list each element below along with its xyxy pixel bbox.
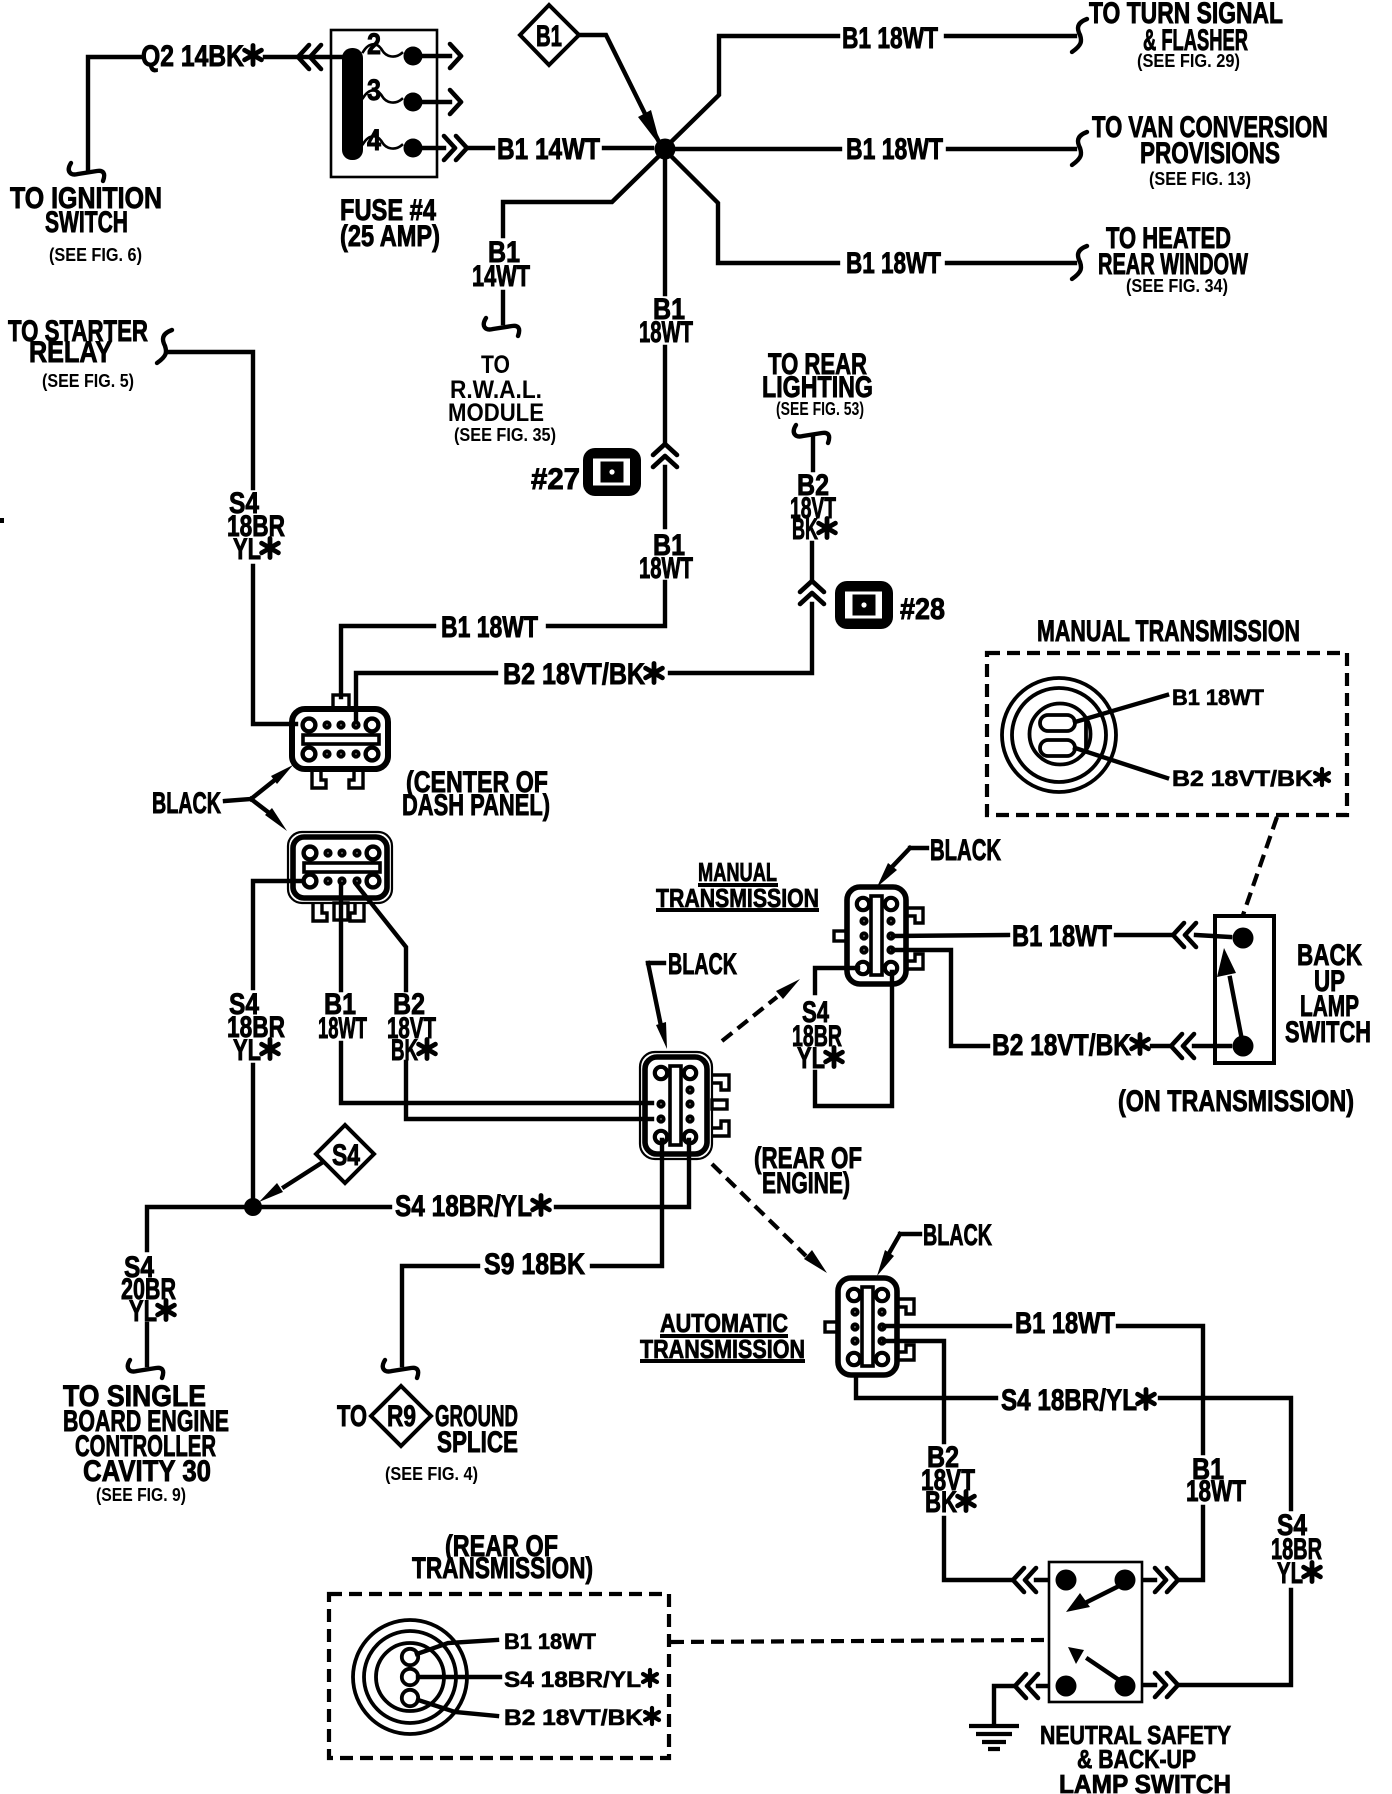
svg-text:BLACK: BLACK [930,834,1001,867]
svg-text:BLACK: BLACK [152,787,221,820]
svg-text:DASH PANEL): DASH PANEL) [402,789,550,822]
svg-text:B1 18WT: B1 18WT [846,133,943,166]
svg-text:YL: YL [129,1295,157,1328]
svg-text:(25 AMP): (25 AMP) [340,220,440,253]
svg-text:3: 3 [367,74,381,107]
neutral safety switch box [1049,1562,1142,1702]
svg-text:(SEE FIG. 9): (SEE FIG. 9) [96,1485,186,1505]
connector half symbol rear lighting [794,425,829,443]
svg-text:18WT: 18WT [639,316,693,349]
back-up lamp switch box [1215,916,1274,1063]
svg-text:(SEE FIG. 6): (SEE FIG. 6) [49,245,142,265]
diamond S4 [316,1125,374,1183]
callout B1 18WT rear transmission [417,1640,497,1654]
dashed arrow to automatic transmission connector [712,1164,806,1256]
svg-text:B1 18WT: B1 18WT [441,611,538,644]
dashed arrow to manual transmission connector [722,997,777,1041]
round connector rear of transmission [353,1620,467,1734]
arrow bottom inside neutral safety switch [1088,1659,1119,1680]
wire B2 18VT BK* automatic connector to neutral safety switch [884,1341,1047,1580]
wire S4 loop manual transmission [815,968,892,1106]
fuse pin 3 [423,100,450,104]
svg-text:B1 18WT: B1 18WT [1172,685,1265,710]
wire B2 18VT/BK* vertical [356,436,813,722]
svg-text:SWITCH: SWITCH [45,206,128,239]
brace starter relay [157,330,172,363]
wire node to van conversion [675,147,1075,151]
grommet #28 [835,581,893,629]
svg-text:BLACK: BLACK [923,1219,992,1252]
wire S4 18BR/YL* junction to rear engine connector [262,1140,689,1207]
svg-text:R9: R9 [387,1400,416,1433]
connector C3 rear of engine [640,1052,729,1159]
svg-text:B1 18WT: B1 18WT [842,22,938,55]
svg-text:(ON TRANSMISSION): (ON TRANSMISSION) [1118,1085,1354,1118]
wire S9 18BK rear engine connector to ground splice [402,1140,662,1365]
connector C4 manual transmission [834,887,923,984]
fuse bus bar [342,48,363,160]
svg-text:#28: #28 [900,593,945,626]
node B1 splice [655,139,676,160]
svg-text:#27: #27 [531,463,580,496]
dashed box rear of transmission [329,1594,669,1758]
wire B2 18VT/BK* manual connector to back-up lamp switch [893,950,1230,1046]
callout B2 18VT/BK* manual box [1075,748,1167,778]
svg-text:(SEE FIG. 53): (SEE FIG. 53) [776,399,864,419]
svg-text:B1 18WT: B1 18WT [846,247,941,280]
junction node S4 [244,1198,262,1216]
wire node to turn signal [671,36,1075,142]
svg-text:(SEE FIG. 4): (SEE FIG. 4) [385,1464,478,1484]
svg-text:Q2 14BK: Q2 14BK [141,40,244,73]
wire ground from neutral safety switch [994,1686,1047,1724]
svg-text:SWITCH: SWITCH [1285,1016,1371,1049]
svg-text:(SEE FIG. 35): (SEE FIG. 35) [454,425,556,445]
connector C5 automatic transmission [825,1278,914,1375]
svg-text:ENGINE): ENGINE) [762,1167,850,1200]
svg-text:18WT: 18WT [639,552,693,585]
wire S4 from dash connector 2 down to junction [253,881,303,1200]
wire B1 18WT from dash connector 2 to rear engine connector [341,886,652,1103]
callout B1 18WT manual box [1075,695,1167,722]
svg-text:S9 18BK: S9 18BK [484,1248,585,1281]
svg-text:YL: YL [1277,1557,1303,1590]
diamond R9 [371,1386,431,1446]
svg-text:YL: YL [233,1034,261,1067]
wire B1 18WT automatic connector to neutral safety switch [884,1326,1203,1580]
round connector manual transmission [1002,678,1116,792]
wire S4 from starter relay down to dash connector 1 [168,352,296,724]
wire B2 18VT/BK* from dash connector 2 to rear engine connector [356,884,652,1119]
svg-text:TRANSMISSION): TRANSMISSION) [412,1552,593,1585]
connector chevrons into fuse [298,45,321,69]
svg-text:4: 4 [367,124,381,157]
svg-text:CAVITY 30: CAVITY 30 [83,1455,211,1488]
svg-text:BLACK: BLACK [668,948,737,981]
connector C1 center of dash panel [292,695,388,788]
fuse #4 box [331,30,437,177]
arrow top inside neutral safety switch [1087,1586,1119,1602]
svg-text:2: 2 [367,28,381,61]
callout B2 18VT/BK* rear transmission [418,1700,497,1716]
wire S4 20BR junction to controller [147,1207,245,1365]
svg-text:YL: YL [233,533,261,566]
arrow inside back-up lamp switch [1230,978,1241,1035]
svg-text:18WT: 18WT [1186,1475,1246,1508]
svg-text:BK: BK [792,513,818,546]
svg-text:B1 14WT: B1 14WT [497,133,600,166]
connector C2 center of dash panel [288,832,392,921]
svg-text:B1: B1 [536,20,562,53]
svg-text:B1 18WT: B1 18WT [1015,1307,1115,1340]
wire B1 18WT manual connector to back-up lamp switch [893,935,1230,937]
wire Q2 from ignition switch [88,57,342,170]
svg-text:RELAY: RELAY [29,336,112,369]
svg-text:BK: BK [391,1034,418,1067]
svg-text:S4: S4 [332,1139,360,1172]
grommet #27 [583,448,641,496]
callout S4 18BR/YL* rear transmission [418,1675,500,1679]
svg-text:B2 18VT/BK: B2 18VT/BK [992,1029,1131,1062]
wire S4 18BR/YL* automatic connector to neutral safety switch [856,1375,1291,1685]
svg-text:(SEE FIG. 13): (SEE FIG. 13) [1149,169,1251,189]
svg-text:LAMP SWITCH: LAMP SWITCH [1059,1769,1231,1794]
svg-text:(SEE FIG. 29): (SEE FIG. 29) [1137,51,1240,71]
svg-text:BK: BK [925,1486,957,1519]
svg-text:B2 18VT/BK: B2 18VT/BK [503,658,645,691]
svg-text:B1 18WT: B1 18WT [1012,920,1112,953]
chevrons connector on B2 vertical [800,581,824,604]
svg-text:(SEE FIG. 34): (SEE FIG. 34) [1126,276,1228,296]
dashed line rear of transmission to neutral safety switch [671,1640,1046,1642]
svg-text:YL: YL [797,1042,825,1075]
svg-text:14WT: 14WT [472,260,530,293]
chevrons connector on B1 vertical [653,444,677,467]
fuse pin 2 [423,54,450,58]
svg-text:S4 18BR/YL: S4 18BR/YL [395,1190,532,1223]
wire node to heated rear window [671,156,1075,263]
svg-text:S4 18BR/YL: S4 18BR/YL [504,1667,641,1692]
connector half symbol ignition [69,163,104,181]
svg-text:B1 18WT: B1 18WT [504,1629,597,1654]
fuse pin 4 [423,146,493,150]
dashed line manual box to back-up lamp switch [1243,817,1277,915]
svg-text:PROVISIONS: PROVISIONS [1140,137,1280,170]
arrow S4 diamond to junction [284,1162,323,1187]
svg-text:TO: TO [337,1400,367,1433]
wire B1 diamond to node with arrowhead [579,35,660,144]
ground symbol [969,1726,1019,1749]
svg-text:18WT: 18WT [318,1012,367,1045]
svg-text:TO: TO [481,351,510,379]
svg-text:(SEE FIG. 5): (SEE FIG. 5) [42,371,134,391]
svg-text:SPLICE: SPLICE [437,1426,518,1459]
wire B1 18WT node vertical down [341,160,665,697]
svg-text:B2 18VT/BK: B2 18VT/BK [504,1705,643,1730]
diamond B1 [520,5,579,65]
svg-text:MODULE: MODULE [448,399,544,427]
svg-text:MANUAL TRANSMISSION: MANUAL TRANSMISSION [1037,615,1300,648]
wire B1 14WT to node [604,146,652,150]
svg-text:B2 18VT/BK: B2 18VT/BK [1172,766,1313,791]
svg-text:S4 18BR/YL: S4 18BR/YL [1001,1384,1137,1417]
wire node to RWAL module [503,156,659,323]
dashed box manual transmission [987,653,1347,815]
